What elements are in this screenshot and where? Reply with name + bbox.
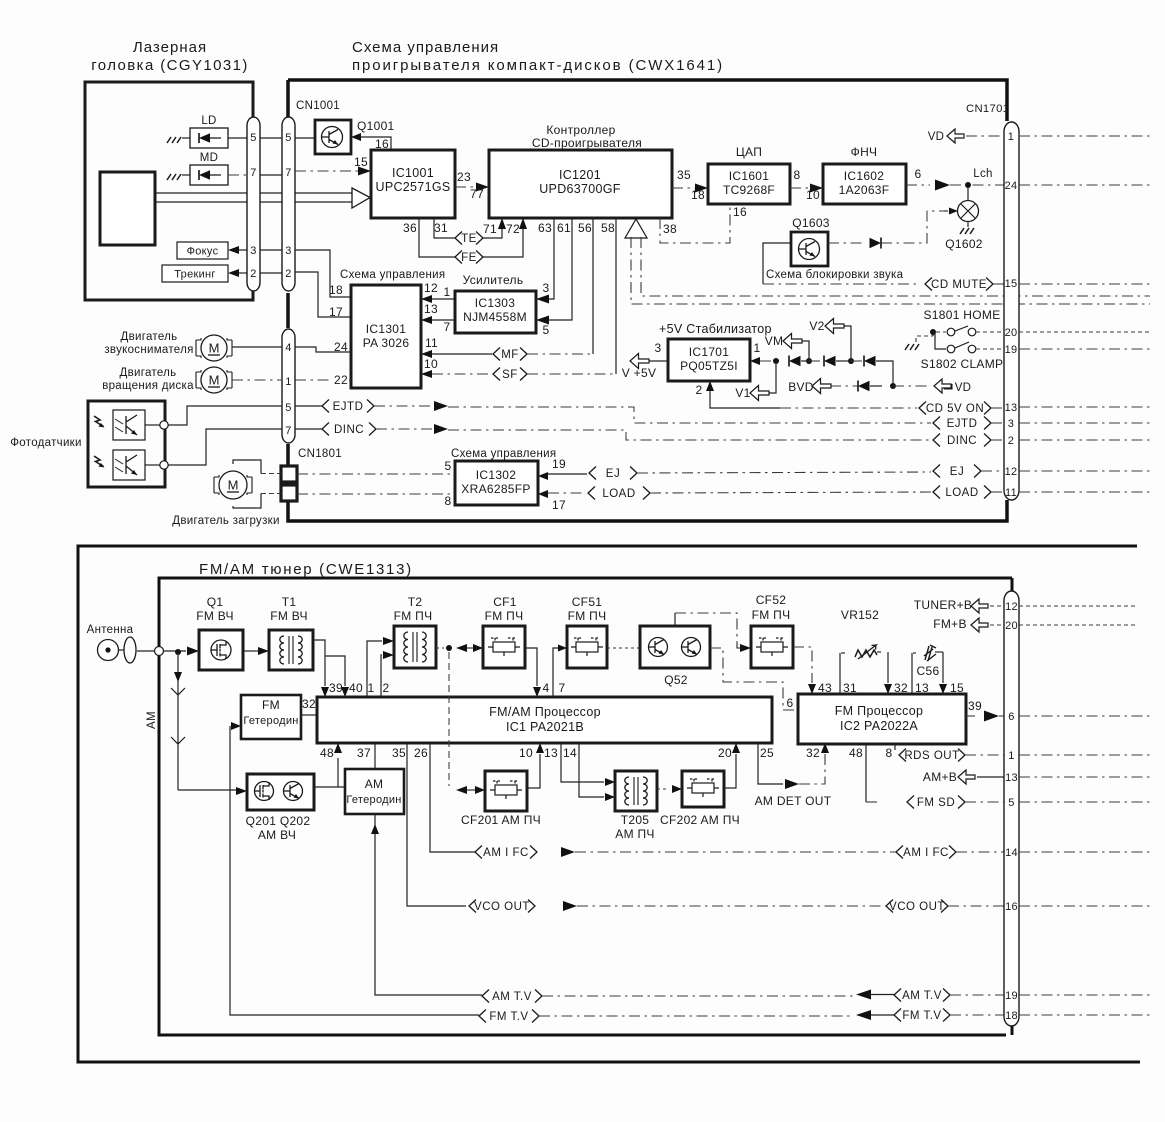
ceramic filter CF51 box (567, 626, 607, 668)
tuner pin16 line right (1019, 905, 1150, 907)
laser-side connector pill (247, 117, 260, 291)
svg-text:72: 72 (506, 222, 520, 236)
CN1701 pin24 line right (1019, 184, 1150, 186)
VCO OUT line (563, 901, 577, 911)
wire LD to CN pin 5 (228, 137, 247, 139)
svg-text:5: 5 (250, 132, 256, 144)
svg-text:+5V Стабилизатор: +5V Стабилизатор (659, 322, 772, 336)
svg-text:5: 5 (285, 132, 291, 144)
svg-text:24: 24 (334, 340, 348, 354)
C56 to IC2 pin13 (911, 653, 913, 694)
svg-text:6: 6 (787, 696, 794, 710)
svg-text:7: 7 (285, 167, 291, 179)
svg-text:головка (CGY1031): головка (CGY1031) (91, 57, 248, 74)
CD MUTE line (763, 283, 920, 285)
svg-text:FM T.V: FM T.V (489, 1011, 528, 1023)
RF signal bus from photodiode (155, 192, 352, 194)
svg-text:15: 15 (1005, 278, 1018, 290)
DAC IC1601 box (708, 164, 790, 204)
svg-text:AM DET OUT: AM DET OUT (755, 794, 832, 808)
EJ flag left (589, 467, 596, 480)
svg-text:VM: VM (765, 334, 784, 348)
wire T205 to CF202 (657, 788, 668, 790)
tuner pin18 line right (1019, 1014, 1150, 1016)
Q1603 left wire to CD MUTE (763, 243, 791, 284)
svg-text:10: 10 (806, 188, 820, 202)
wire pill gap pin2 (260, 272, 282, 274)
TE wire to IC1201 pin 71 (483, 222, 502, 238)
svg-text:12: 12 (1005, 601, 1018, 613)
svg-text:CD 5V ON: CD 5V ON (926, 403, 984, 415)
switch S1802 contacts (947, 345, 955, 353)
DINC flag (295, 428, 322, 430)
svg-text:AM ВЧ: AM ВЧ (258, 828, 296, 842)
svg-text:FM ВЧ: FM ВЧ (196, 609, 234, 623)
transistor Q1602 mute (967, 188, 969, 200)
svg-text:39: 39 (329, 681, 343, 695)
svg-text:1: 1 (285, 376, 291, 388)
svg-text:FM SD: FM SD (917, 797, 955, 809)
AM I FC flag left (475, 846, 482, 859)
svg-text:IC2 PA2022A: IC2 PA2022A (840, 719, 918, 733)
svg-text:PQ05TZ5I: PQ05TZ5I (680, 359, 738, 373)
svg-text:BVD: BVD (788, 380, 814, 394)
FM IF transformer T2 box (394, 626, 436, 668)
svg-text:T2: T2 (408, 595, 423, 609)
svg-text:36: 36 (403, 221, 417, 235)
svg-text:SF: SF (502, 369, 518, 381)
svg-text:12: 12 (424, 281, 438, 295)
svg-text:IC1302: IC1302 (476, 468, 517, 482)
svg-text:FE: FE (461, 252, 477, 264)
svg-text:32: 32 (806, 746, 820, 760)
svg-text:ЦАП: ЦАП (736, 145, 762, 159)
svg-text:40: 40 (349, 681, 363, 695)
svg-text:3: 3 (543, 281, 550, 295)
svg-text:Фотодатчики: Фотодатчики (10, 437, 81, 449)
svg-text:AM ПЧ: AM ПЧ (615, 827, 654, 841)
tuner pin6 line right (1019, 715, 1150, 717)
sensor2 output node (145, 464, 160, 466)
wire CN1001 pin3 to IC1301 pin18 (295, 250, 351, 297)
svg-text:NJM4558M: NJM4558M (463, 310, 527, 324)
IC1 pin2 wire to T2 (381, 655, 382, 697)
svg-text:Гетеродин: Гетеродин (243, 715, 298, 727)
FM osc arrow input (231, 722, 241, 730)
svg-text:FM T.V: FM T.V (902, 1010, 941, 1022)
AM T.V line left (375, 814, 482, 995)
wire CN1801-1 to IC1302 pin5 (297, 473, 455, 475)
tuner pin13 line right (1019, 776, 1150, 778)
LOAD right flag (933, 486, 940, 499)
svg-text:13: 13 (1005, 772, 1018, 784)
svg-text:7: 7 (285, 425, 291, 437)
svg-text:XRA6285FP: XRA6285FP (461, 482, 530, 496)
svg-text:S1801 HOME: S1801 HOME (923, 308, 1000, 322)
FM T.V line left (230, 726, 479, 1015)
AM branch down arrow (177, 652, 179, 790)
svg-text:FM ПЧ: FM ПЧ (568, 609, 607, 623)
svg-text:6: 6 (1008, 711, 1014, 723)
tuner connector pill (1004, 591, 1019, 1026)
AM T.V right flag (894, 989, 901, 1002)
svg-text:IC1001: IC1001 (392, 166, 434, 180)
tuner pin12 line right (1019, 605, 1137, 607)
wire pill gap pin7 (260, 174, 282, 176)
svg-text:ФНЧ: ФНЧ (851, 145, 878, 159)
laser head enclosure box (85, 82, 253, 300)
svg-text:Q1603: Q1603 (792, 216, 830, 230)
svg-text:1: 1 (1008, 750, 1014, 762)
svg-text:56: 56 (578, 221, 592, 235)
svg-text:23: 23 (457, 170, 471, 184)
svg-text:Лазерная: Лазерная (133, 39, 207, 56)
svg-text:CF201 AM ПЧ: CF201 AM ПЧ (461, 813, 541, 827)
tracking label box (162, 265, 228, 282)
svg-text:Контроллер: Контроллер (546, 123, 615, 137)
svg-text:48: 48 (320, 746, 334, 760)
svg-text:Двигатель: Двигатель (121, 331, 178, 343)
diode D3 (851, 360, 864, 362)
diode D2 (809, 360, 824, 362)
LOAD flag left (588, 487, 595, 500)
svg-text:Гетеродин: Гетеродин (346, 794, 401, 806)
svg-text:7: 7 (559, 681, 566, 695)
svg-text:EJ: EJ (950, 466, 964, 478)
FM/AM processor IC1 box (317, 697, 772, 743)
FM SD flag (907, 796, 914, 809)
svg-text:Схема блокировки звука: Схема блокировки звука (766, 269, 904, 281)
svg-text:31: 31 (434, 221, 448, 235)
svg-text:5: 5 (445, 459, 452, 473)
svg-text:14: 14 (563, 746, 577, 760)
svg-text:Q1: Q1 (207, 595, 224, 609)
wire sensor1 to EJTD row (168, 406, 282, 425)
wire pill pin1 to IC1301 pin22 (295, 379, 351, 381)
svg-text:10: 10 (424, 357, 438, 371)
svg-text:T1: T1 (282, 595, 297, 609)
svg-text:IC1701: IC1701 (689, 345, 730, 359)
svg-text:IC1601: IC1601 (729, 169, 770, 183)
svg-text:8: 8 (886, 746, 893, 760)
VR152 to IC2 pin32 (887, 652, 889, 683)
svg-text:4: 4 (543, 681, 550, 695)
wire to S1802 (933, 332, 946, 349)
CD control board outer box (288, 80, 1007, 521)
wire CF1 to IC1 pin4 (525, 648, 537, 686)
servo driver IC1301 box (351, 285, 421, 388)
antenna jack (98, 640, 119, 661)
wire CN1801-2 to IC1302 pin8 (297, 493, 455, 495)
svg-text:FM ВЧ: FM ВЧ (270, 609, 308, 623)
SF flag (493, 368, 500, 381)
svg-text:AM I FC: AM I FC (903, 847, 949, 859)
svg-text:CF202 AM ПЧ: CF202 AM ПЧ (660, 813, 740, 827)
IC1 pin35 VCO wire (407, 743, 466, 906)
svg-text:Схема управления: Схема управления (340, 269, 445, 281)
svg-text:19: 19 (552, 457, 566, 471)
svg-text:19: 19 (1005, 990, 1018, 1002)
S1801 common wire (916, 336, 933, 342)
board-side connector pill CN1001 (282, 117, 295, 291)
svg-text:1A2063F: 1A2063F (839, 183, 890, 197)
svg-text:PA 3026: PA 3026 (363, 336, 410, 350)
controller IC1201 box (489, 150, 672, 218)
AM I FC line (561, 847, 575, 857)
IC1 pin26 AM I FC wire (430, 743, 475, 852)
svg-text:CF51: CF51 (572, 595, 603, 609)
svg-text:FM/AM Процессор: FM/AM Процессор (489, 705, 601, 719)
CN1701 pin13 line right (1019, 406, 1150, 408)
tuner outer box (78, 546, 1140, 1062)
IC1 pin13 wire to T205 (561, 743, 604, 782)
focus arrow (228, 246, 239, 254)
svg-text:UPC2571GS: UPC2571GS (376, 180, 451, 194)
FM T.V flag left (479, 1010, 486, 1023)
svg-text:VCO OUT: VCO OUT (889, 901, 945, 913)
svg-text:Усилитель: Усилитель (463, 273, 524, 287)
svg-text:5: 5 (285, 402, 291, 414)
wire to Q1 (164, 650, 186, 652)
CD 5V ON flag (919, 402, 926, 415)
svg-text:32: 32 (302, 697, 316, 711)
svg-text:13: 13 (544, 746, 558, 760)
svg-text:LOAD: LOAD (602, 488, 635, 500)
TE flag (455, 232, 462, 245)
tuner pin5 line right (1019, 801, 1150, 803)
ceramic filter CF52 box (751, 626, 793, 668)
node AM branch (175, 649, 181, 655)
RDS OUT flag (899, 749, 906, 762)
tuner inner box (159, 578, 1012, 1035)
svg-text:TC9268F: TC9268F (723, 183, 775, 197)
loader driver IC1302 box (455, 461, 538, 505)
ceramic filter CF202 box (682, 771, 724, 807)
CN1701 pin1 line right (1019, 135, 1150, 137)
svg-text:13: 13 (1005, 402, 1018, 414)
CN1801 contact 2 (281, 485, 297, 501)
photo sensor 1 (113, 410, 145, 440)
node on tuner box edge (155, 647, 164, 656)
FM RF transformer T1 box (269, 630, 313, 670)
svg-text:FM ПЧ: FM ПЧ (485, 609, 524, 623)
svg-text:20: 20 (1005, 327, 1018, 339)
svg-text:M: M (209, 373, 220, 388)
IF tap through IC1 (448, 652, 450, 786)
ground for MD (167, 174, 171, 180)
node BVD junction (890, 383, 896, 389)
Q1602 ground (967, 221, 969, 227)
svg-text:16: 16 (1005, 901, 1018, 913)
svg-text:11: 11 (425, 336, 438, 350)
EJTD flag (295, 405, 322, 407)
svg-text:8: 8 (794, 168, 801, 182)
svg-text:M: M (228, 478, 239, 493)
MF flag (493, 348, 500, 361)
EJTD right flag (933, 417, 940, 430)
sled motor (196, 335, 232, 361)
svg-text:V2: V2 (809, 319, 824, 333)
svg-text:48: 48 (849, 746, 863, 760)
svg-text:M: M (209, 341, 220, 356)
svg-text:CN1701: CN1701 (966, 103, 1009, 115)
svg-text:проигрывателя компакт-дисков: проигрывателя компакт-дисков (CWX1641) (352, 57, 724, 74)
CN1701 pin12 line right (1019, 470, 1150, 472)
svg-text:14: 14 (1005, 847, 1018, 859)
tuner pin20 line right (1019, 624, 1137, 626)
AM IF transformer T205 box (615, 771, 657, 811)
CD MUTE flag (925, 278, 932, 291)
BVD diode (830, 385, 858, 387)
sensor1 output node (145, 424, 160, 426)
BVD arrow (812, 379, 831, 394)
svg-text:Q1602: Q1602 (945, 237, 983, 251)
node Lch (965, 182, 971, 188)
node VM junction (806, 358, 812, 364)
IC1 pin7 wire to CF51 (553, 648, 558, 697)
VCO OUT right flag (886, 900, 893, 913)
svg-text:EJTD: EJTD (333, 401, 364, 413)
connector CN1701 pill (1004, 122, 1019, 500)
svg-text:AM T.V: AM T.V (902, 990, 942, 1002)
svg-text:IC1 PA2021B: IC1 PA2021B (506, 720, 584, 734)
FM T.V right flag (894, 1009, 901, 1022)
node V1 junction (773, 358, 779, 364)
svg-text:1: 1 (368, 681, 375, 695)
wire D3 down to BVD row (876, 361, 893, 386)
wire to V1 arrow (768, 361, 776, 393)
wire T1 to IC1 pin39/40 (313, 640, 325, 686)
svg-text:Q201 Q202: Q201 Q202 (246, 814, 311, 828)
arrows into CF201 (456, 786, 467, 794)
svg-text:C56: C56 (917, 664, 940, 678)
svg-text:3: 3 (285, 245, 291, 257)
S1801 ground (905, 344, 909, 350)
AM I FC right flag (896, 846, 903, 859)
svg-text:Q1001: Q1001 (357, 119, 395, 133)
svg-text:S1802 CLAMP: S1802 CLAMP (921, 357, 1004, 371)
node V2 junction (848, 358, 854, 364)
AM RF transistors Q201 Q202 box (247, 774, 314, 810)
EJ right flag (933, 465, 940, 478)
laser diode LD (190, 128, 228, 148)
CN1701 pin11 line right (1019, 491, 1150, 493)
CN1701 pin2 line right (1019, 439, 1150, 441)
wire CF52 to IC2 pin43 (793, 647, 812, 683)
transistor Q1001 box (315, 120, 351, 154)
svg-text:3: 3 (250, 245, 256, 257)
svg-text:20: 20 (718, 746, 732, 760)
antenna wire (119, 649, 124, 651)
svg-text:CF52: CF52 (756, 593, 787, 607)
EJTD line to right (374, 405, 433, 407)
DINC line to right (376, 428, 433, 430)
svg-text:2: 2 (250, 268, 256, 280)
T2 output node (436, 647, 444, 649)
svg-text:FM+B: FM+B (933, 617, 967, 631)
svg-text:AM I FC: AM I FC (483, 847, 529, 859)
svg-text:MD: MD (200, 152, 219, 164)
svg-text:63: 63 (538, 221, 552, 235)
svg-text:5: 5 (543, 323, 550, 337)
svg-text:T205: T205 (621, 813, 650, 827)
svg-text:26: 26 (414, 746, 428, 760)
svg-text:2: 2 (285, 268, 291, 280)
wire Q1001 to IC1001 pin 16 (351, 133, 361, 141)
diode D1 (789, 356, 801, 366)
svg-text:13: 13 (424, 302, 438, 316)
CN1801 contact 1 (281, 466, 297, 482)
AM local oscillator box (345, 769, 404, 814)
photodiode array block (100, 172, 155, 245)
disc motor (196, 367, 232, 393)
svg-text:11: 11 (1005, 487, 1017, 499)
arrows T2 to CF1 (456, 644, 467, 652)
VR152 to IC2 pin31 (839, 653, 841, 694)
svg-text:IC1602: IC1602 (844, 169, 885, 183)
svg-text:CF1: CF1 (493, 595, 517, 609)
wire disc motor to pin 1 (232, 379, 282, 381)
IC2 pin48 wire to FM SD (865, 744, 867, 802)
svg-text:3: 3 (1008, 418, 1014, 430)
svg-text:18: 18 (1005, 1010, 1018, 1022)
svg-text:TE: TE (461, 233, 477, 245)
tracking arrow (228, 269, 239, 277)
wire CF51 to Q52 (607, 647, 640, 649)
svg-text:2: 2 (696, 383, 703, 397)
svg-text:IC1301: IC1301 (366, 322, 407, 336)
svg-text:VD: VD (928, 131, 945, 143)
svg-text:Двигатель загрузки: Двигатель загрузки (172, 515, 279, 527)
svg-text:18: 18 (329, 283, 343, 297)
wire pill pin4 to IC1301 pin24 (295, 347, 351, 352)
wire MD to CN pin 7 (228, 174, 247, 176)
CN1701 pin19 line right (1019, 348, 1150, 350)
svg-text:4: 4 (285, 342, 291, 354)
svg-text:25: 25 (760, 746, 774, 760)
wire CN1001 pin7 to IC1001 pin 15 (295, 170, 361, 172)
svg-text:2: 2 (1008, 435, 1014, 447)
svg-text:CD-проигрывателя: CD-проигрывателя (532, 136, 642, 150)
wire pill gap pin3 (260, 249, 282, 251)
svg-text:RDS OUT: RDS OUT (904, 750, 959, 762)
ground for LD (167, 137, 171, 143)
svg-text:8: 8 (445, 494, 452, 508)
svg-text:19: 19 (1005, 344, 1018, 356)
svg-text:2: 2 (383, 681, 390, 695)
IC1 pin48 wire (337, 758, 339, 787)
svg-text:35: 35 (392, 746, 406, 760)
svg-text:FM/AM тюнер (CWE1313): FM/AM тюнер (CWE1313) (199, 561, 413, 578)
wire BVD junction to VD arrow (893, 385, 931, 387)
Q1603 output diode to Q1602 (828, 242, 866, 244)
svg-text:Фокус: Фокус (187, 246, 219, 258)
svg-text:Lch: Lch (973, 168, 992, 180)
Q52 output wire to IC2 pin6 (710, 648, 798, 710)
svg-text:FM ПЧ: FM ПЧ (752, 608, 791, 622)
wire Q1 to T1 (243, 650, 258, 652)
svg-text:IC1201: IC1201 (559, 168, 601, 182)
IC1 pin1 wire to T2 (367, 641, 382, 697)
svg-text:35: 35 (677, 168, 691, 182)
svg-text:TUNER+B: TUNER+B (914, 598, 972, 612)
svg-text:AM: AM (146, 711, 158, 729)
+B bus lines to right edge (631, 237, 1150, 304)
wire Q202 to AM osc (314, 786, 345, 788)
motor connector pill (282, 329, 295, 443)
CF201 to IC1 pin10 (527, 754, 540, 788)
DINC right flag (933, 434, 940, 447)
